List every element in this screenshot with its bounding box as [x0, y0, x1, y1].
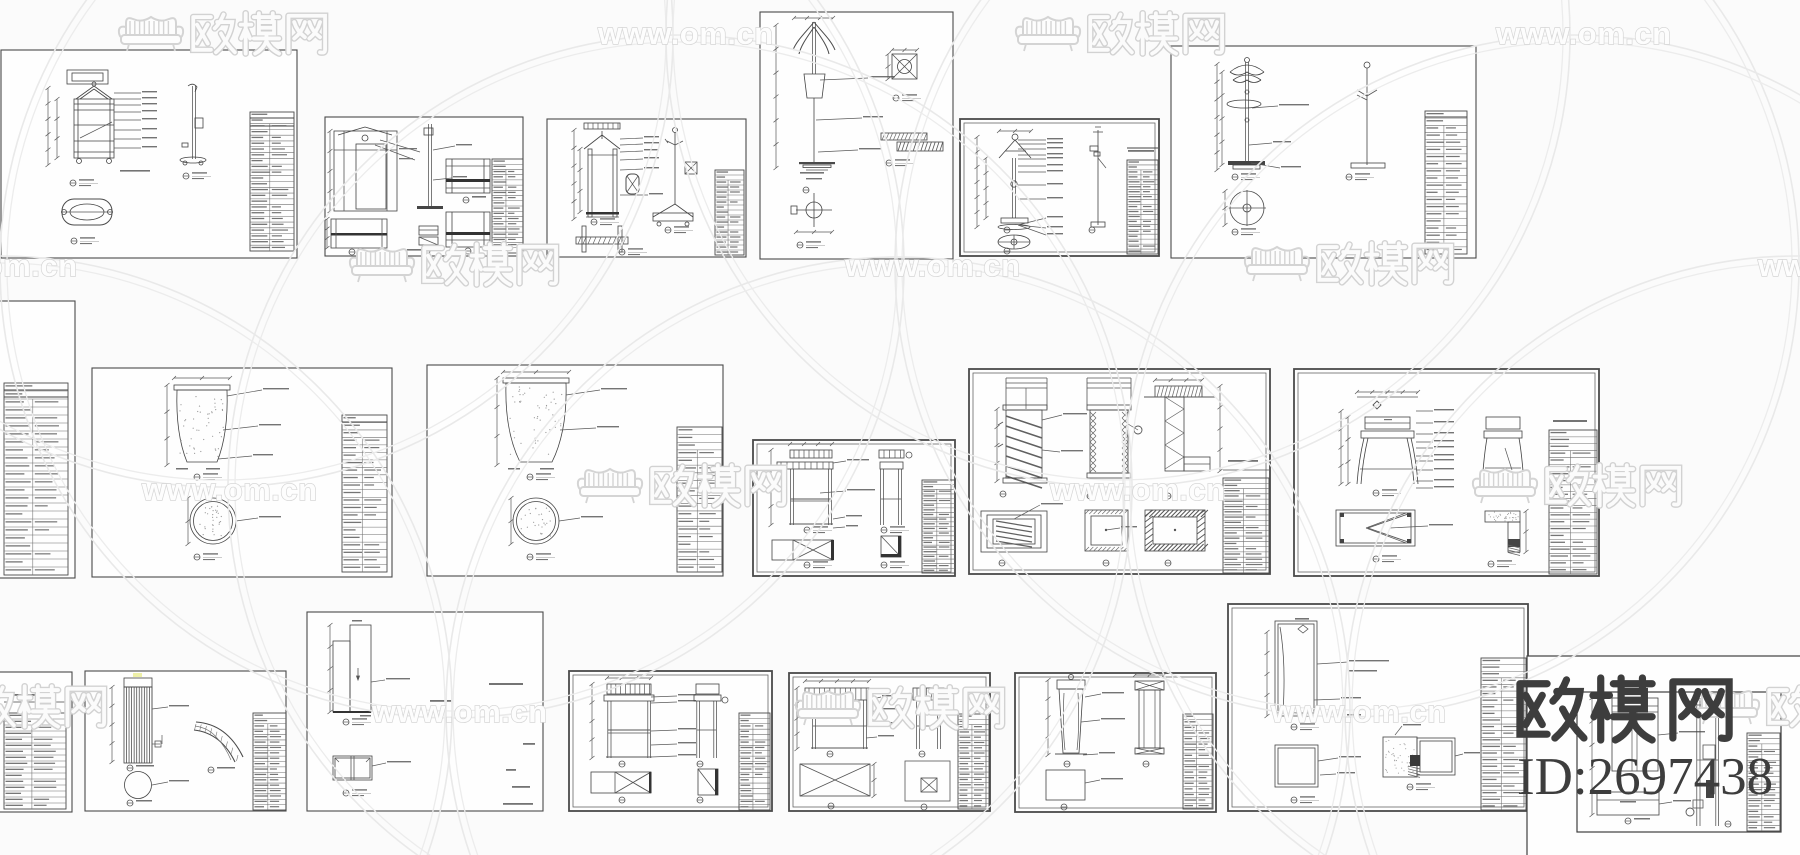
sheet S2 shelf unit upper: [446, 159, 490, 193]
sheet B0 narrow spec table: [0, 672, 72, 812]
sheet B4 data table: [958, 714, 989, 809]
sheet S2 bench front: [331, 219, 387, 248]
sheet B6 data table: [1481, 658, 1526, 810]
svg-text:www.om.cn: www.om.cn: [371, 694, 548, 729]
sheet M4 L-section detail: [1155, 386, 1202, 397]
sheet B2 wardrobe elevation: [307, 612, 543, 811]
watermark sofa logo A8: [803, 691, 853, 709]
svg-text:www.om.cn: www.om.cn: [1757, 248, 1800, 283]
sheet S1 top view: [62, 199, 112, 225]
sheet S2 stand side view: [428, 124, 430, 206]
sheet M3 side elevation: [879, 450, 904, 458]
sheet B3 plan view: [591, 772, 651, 793]
sheet S3 front view: [584, 131, 620, 149]
sheet B5 pedestal front: [1015, 673, 1216, 812]
sheet S3 data table: [715, 170, 744, 255]
watermark sofa logo A6: [1480, 469, 1530, 487]
sheet S2 shelf unit lower: [446, 212, 490, 247]
sheet S6 side view: [1366, 68, 1368, 165]
sheet S1 valet stand drawing: [1, 50, 297, 258]
sheet B6 corner sill detail: [1383, 737, 1417, 777]
sheet M5 plan view: [1336, 510, 1415, 546]
watermark rings: [0, 0, 673, 487]
sheet M2 plan circle: [513, 498, 559, 544]
sheet S4 plan square: [892, 54, 917, 79]
watermark sofa logo A3: [357, 248, 407, 266]
sheet B2 plan detail: [333, 756, 372, 780]
sheet S6 umbrella coat stand front: [1171, 46, 1476, 258]
sheet M5 console side elevation: [1486, 417, 1520, 429]
watermark sofa logo A4: [1252, 247, 1302, 265]
watermark sofa logo A1: [126, 17, 176, 35]
svg-text:ID:2697438: ID:2697438: [1517, 748, 1773, 806]
sheet S3 top view: [582, 226, 586, 252]
sheet M3 corner detail: [881, 536, 901, 557]
sheet M3 plan view: [772, 540, 833, 560]
sheet S3 valet stand type 2: [547, 119, 746, 257]
watermark sofa logo A2: [1023, 17, 1073, 35]
sheet M2 data table: [677, 427, 722, 572]
sheet M4 xhatch column elevation: [1087, 377, 1131, 379]
sheet B5 data table: [1183, 714, 1213, 809]
sheet B6 door elevation: [1228, 604, 1528, 811]
sheet M0 narrow spec table: [0, 301, 75, 578]
sheet M2 planter elevation: [427, 365, 723, 576]
sheet S2 small details: [419, 226, 438, 235]
sheet M5 corner detail: [1485, 511, 1520, 522]
sheet B1 data table: [253, 713, 286, 810]
sheet B3 bench front elevation: [569, 671, 772, 811]
sheet M4 plan square hatch: [1085, 510, 1128, 551]
sheet B5 pedestal side: [1135, 681, 1164, 690]
sheet B7 inner frame: [1577, 692, 1781, 832]
sheet B3 data table: [739, 713, 770, 810]
sheet B1 curved molding detail: [196, 722, 243, 757]
sheet M5 console front elevation: [1294, 369, 1599, 576]
sheet S6 data table: [1425, 111, 1467, 254]
sheet S5 plan view: [998, 235, 1030, 249]
sheet M3 data table: [922, 480, 955, 573]
sheet M1 vase elevation: [92, 368, 392, 577]
sheet M4 data table: [1223, 478, 1269, 573]
sheet B7 cabinet elevation: [1612, 698, 1658, 771]
sheet S2 data table: [492, 159, 523, 253]
sheet S2 wardrobe and shelves: [325, 117, 523, 256]
sheet M1 plan circle: [190, 498, 236, 544]
sheet S4 coat tree elevation: [760, 12, 953, 259]
sheet B4 corner detail: [905, 761, 950, 801]
svg-text:www.om.cn: www.om.cn: [1270, 694, 1447, 729]
sheet B2 title texts: [489, 683, 523, 685]
sheet B1 fluted column elevation: [85, 671, 286, 811]
sheet B7 data table: [1747, 733, 1780, 831]
sheet S6 plan circle: [1230, 191, 1264, 225]
sheet B1 plan circle: [125, 772, 152, 799]
sheet S5 side view: [1097, 130, 1099, 225]
sheet M3 bench front elevation: [753, 440, 955, 576]
sheet S1 side view: [192, 86, 194, 159]
sheet M4 striped column elevation: [969, 369, 1270, 574]
sheet M5 data table: [1549, 430, 1597, 574]
site logo text dark: [1520, 680, 1584, 738]
svg-text:www.om.cn: www.om.cn: [844, 248, 1021, 283]
sheet B4 plan view: [800, 764, 870, 796]
svg-text:www.om.cn: www.om.cn: [0, 248, 78, 283]
svg-text:www.om.cn: www.om.cn: [141, 472, 318, 507]
svg-text:www.om.cn: www.om.cn: [597, 16, 774, 51]
sheet B3 corner detail: [698, 769, 718, 795]
sheet M4 plan square dark: [1145, 510, 1205, 551]
sheet B7 outer sheet edge: [1527, 656, 1800, 855]
sheet S1 data table: [250, 112, 294, 251]
sheet S4 pole cross section: [813, 193, 815, 227]
sheet B4 slat bench front: [789, 673, 990, 811]
sheet M4 plan square nested: [981, 511, 1047, 552]
sheet B5 plan square: [1046, 770, 1085, 800]
sheet S5 coat stand front: [960, 119, 1159, 256]
sheet M1 data table: [342, 415, 387, 572]
watermark sofa logo A5: [585, 469, 635, 487]
sheet B3 side elevation: [696, 684, 719, 694]
sheet S5 data table: [1127, 160, 1158, 254]
sheet B4 side elevation: [913, 688, 944, 700]
svg-text:www.om.cn: www.om.cn: [1049, 472, 1226, 507]
sheet B7 tall section: [1696, 698, 1698, 826]
sheet B6 plan square: [1275, 745, 1318, 787]
sheet S3 side view coat stand: [674, 132, 676, 204]
sheet S4 hatched bar detail: [881, 133, 927, 140]
svg-text:www.om.cn: www.om.cn: [1495, 16, 1672, 51]
watermark sofa logo A9: [1702, 690, 1752, 708]
